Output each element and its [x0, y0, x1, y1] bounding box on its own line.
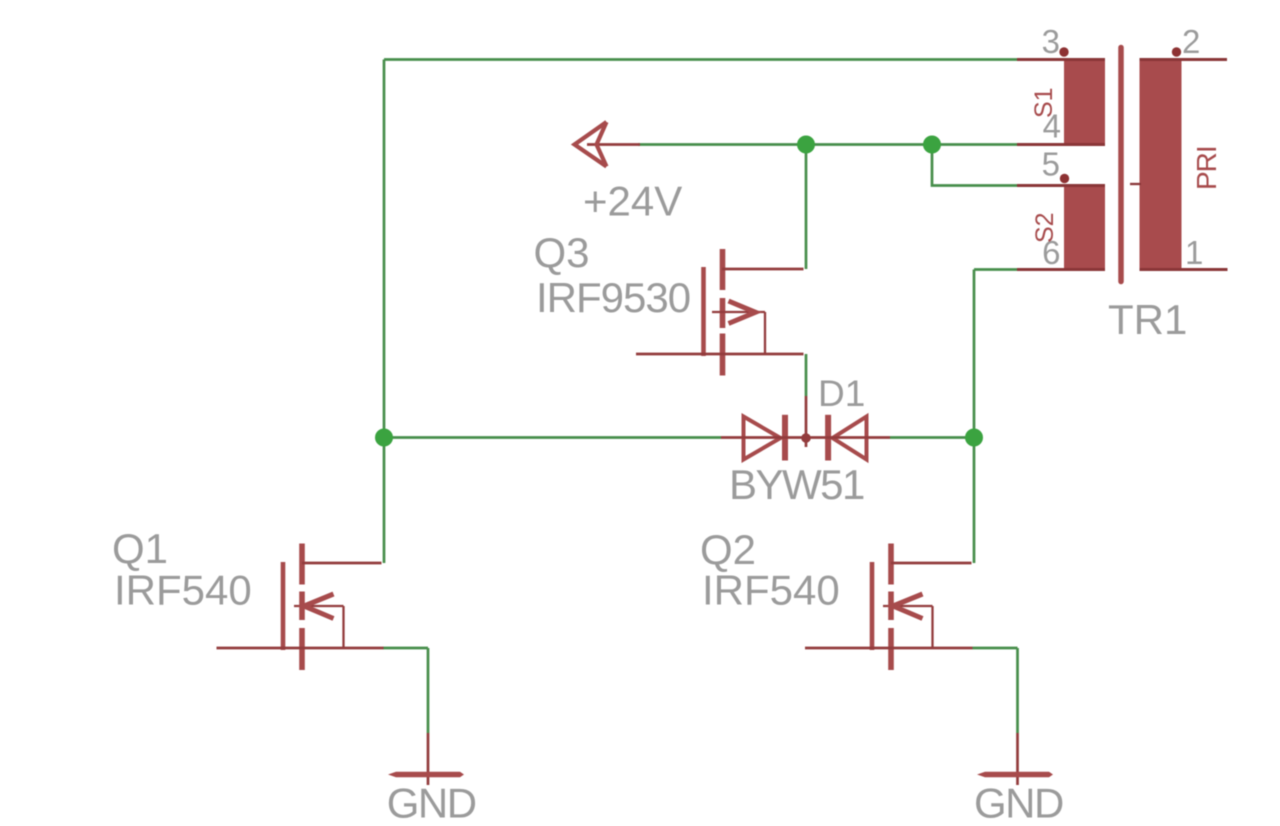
svg-text:Q1: Q1	[112, 525, 168, 572]
pin dot 3	[1059, 47, 1068, 56]
svg-text:+24V: +24V	[583, 178, 682, 225]
diode D1 left cathode bar	[782, 415, 788, 461]
transistor Q3 channel dashes	[720, 249, 726, 376]
wire D1 rail middle red	[721, 436, 890, 439]
transistor Q2 bulk connection	[883, 606, 933, 648]
svg-text:GND: GND	[974, 780, 1063, 826]
transformer TR1 core bar	[1118, 48, 1124, 282]
wire Q1 source to GND	[383, 648, 428, 733]
svg-text:IRF540: IRF540	[114, 567, 252, 614]
wire pin 6 horizontal	[974, 268, 1017, 271]
ground bar (Q2)	[977, 772, 1053, 778]
transistor Q3 gate and source lead	[636, 353, 804, 356]
wire D1 rail right segment	[890, 436, 974, 439]
wire Q3 source down to D1	[805, 354, 808, 396]
transistor Q2 gate and source lead	[805, 647, 973, 650]
ground bar (Q1)	[388, 772, 464, 778]
diode D1 left triangle	[744, 417, 781, 460]
transistor Q2 gate bar	[870, 562, 875, 650]
svg-text:S1: S1	[1030, 87, 1058, 118]
junction node dot +24V rail / pin 5 branch	[923, 136, 941, 154]
transistor Q2 drain lead	[891, 562, 972, 565]
wire D1 rail left segment	[384, 436, 721, 439]
ground lead (Q2)	[1016, 733, 1019, 785]
transistor Q3 drain lead	[722, 268, 804, 271]
transformer TR1 pin 1 wire	[1140, 268, 1228, 271]
svg-text:Q3: Q3	[534, 229, 590, 276]
diode D1 right cathode bar	[825, 415, 831, 461]
ground lead (Q1)	[427, 733, 430, 785]
transformer TR1 pin 3 wire	[1017, 58, 1105, 61]
svg-text:BYW51: BYW51	[729, 461, 864, 508]
supply +24V arrowhead	[575, 122, 607, 167]
svg-text:2: 2	[1182, 23, 1200, 60]
supply +24V arrow line	[587, 143, 640, 146]
wire Q2 source to GND	[973, 648, 1018, 733]
transformer TR1 pin 5 wire	[1017, 184, 1105, 187]
transistor Q1 arrow (N-channel, pointing left)	[304, 594, 334, 619]
transformer TR1 pin 4 wire	[1017, 143, 1105, 146]
wire net +24V top horizontal from left rail to pin 3	[384, 58, 1017, 61]
transistor Q2 channel dashes	[888, 544, 894, 671]
svg-text:5: 5	[1042, 146, 1060, 183]
pin dot 2	[1172, 47, 1181, 56]
pin dot 5	[1060, 174, 1069, 183]
transistor Q1 gate bar	[281, 562, 286, 650]
transformer TR1 pin 6 wire	[1017, 268, 1105, 271]
transistor Q1 bulk connection	[294, 606, 344, 648]
svg-text:S2: S2	[1031, 212, 1059, 243]
wire net left vertical rail	[383, 60, 386, 564]
svg-text:PRI: PRI	[1191, 146, 1222, 190]
transistor Q1 channel dashes	[299, 544, 305, 671]
transistor Q3 bulk connection	[712, 312, 765, 354]
wire from +24V rail down to Q3 drain	[805, 145, 808, 270]
wire Q2 drain vertical to pin 6	[973, 270, 976, 564]
svg-text:IRF540: IRF540	[702, 567, 840, 614]
transformer TR1 pin 2 wire	[1140, 58, 1228, 61]
transistor Q1 drain lead	[302, 562, 382, 565]
junction node dot left rail / D1 rail	[375, 429, 393, 447]
transistor Q2 arrow (N-channel, pointing left)	[893, 594, 923, 619]
transformer TR1 center tick	[1130, 183, 1141, 185]
transformer TR1 winding S2 block	[1064, 185, 1105, 271]
svg-text:IRF9530: IRF9530	[536, 274, 690, 321]
wire +24V rail to pin 4	[638, 143, 1017, 146]
wire branch to pin 5	[932, 145, 1017, 186]
diode D1 right triangle	[833, 417, 867, 460]
svg-text:1: 1	[1185, 234, 1203, 271]
transistor Q1 gate and source lead	[217, 647, 384, 650]
svg-text:TR1: TR1	[1108, 296, 1187, 343]
svg-text:D1: D1	[818, 373, 865, 414]
transformer TR1 winding S1 block	[1064, 58, 1105, 145]
transistor Q3 arrow (P-channel, pointing right)	[729, 301, 756, 324]
junction node dot +24V rail / Q3 drain	[797, 136, 815, 154]
svg-text:3: 3	[1042, 23, 1060, 60]
svg-text:GND: GND	[387, 780, 476, 826]
transformer TR1 winding PRI block	[1140, 58, 1182, 270]
junction node dot Q2 drain / D1 rail	[965, 429, 983, 447]
diode D1 center lead	[805, 396, 808, 447]
transistor Q3 gate bar	[701, 267, 706, 356]
junction D1 center red dot	[801, 433, 811, 443]
